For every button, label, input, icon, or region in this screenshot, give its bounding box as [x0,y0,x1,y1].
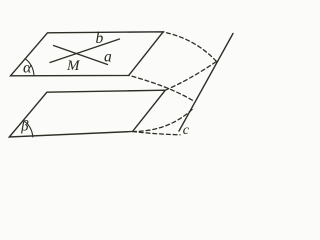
svg-text:a: a [104,49,112,66]
line c [179,34,233,132]
plane alpha parallelogram [11,32,164,76]
angle arc beta [23,120,33,137]
dashed arcs [129,32,217,135]
svg-text:M: M [66,58,81,74]
line a [54,46,108,65]
geometry figure: parallel planes alpha & beta, crossing lines a,b at M, transversal line c [0,0,246,149]
svg-text:β: β [20,119,29,135]
svg-text:c: c [183,123,190,138]
arc D : BR2 to foot of c [133,132,181,135]
arc A : TR1 to P1 on c [163,32,216,62]
arc C : TR2 to P1 on c [165,62,216,91]
arc E : BR2 rising to c [133,110,193,132]
svg-text:b: b [96,30,104,47]
svg-text:α: α [23,60,32,77]
line b [50,39,120,63]
angle arc alpha [25,59,34,76]
plane beta parallelogram [9,90,165,137]
arc B : BR1 to P2 on c [129,75,195,101]
